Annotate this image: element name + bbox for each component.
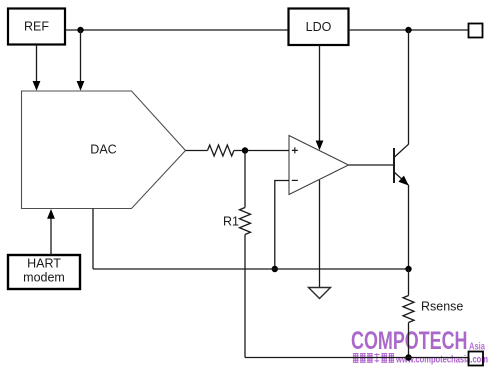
svg-text:Rsense: Rsense	[421, 300, 463, 314]
LDO block	[289, 9, 349, 46]
wire bottom rail	[245, 357, 469, 359]
svg-text:LDO: LDO	[306, 20, 332, 34]
DAC converter	[22, 91, 186, 209]
resistor Rsense	[403, 296, 463, 323]
node junction REF output	[77, 27, 83, 33]
wire arrow LDO to op-amp supply	[316, 45, 324, 150]
wire op-amp to ground	[319, 180, 321, 288]
wire op-amp minus input	[275, 181, 289, 270]
REF block	[8, 9, 65, 45]
svg-text:R1: R1	[223, 215, 239, 229]
op-amp U1	[289, 136, 349, 195]
wire arrow REF bottom to DAC	[33, 45, 41, 91]
svg-text:HART: HART	[27, 257, 61, 271]
node junction emitter / mid rail	[405, 266, 411, 272]
node junction plus input / R1	[242, 147, 248, 153]
output terminal top square	[469, 24, 483, 38]
resistor series (zigzag)	[208, 145, 234, 156]
watermark url	[395, 355, 488, 366]
node junction minus input / mid rail	[272, 266, 278, 272]
wire REF to LDO	[65, 29, 289, 31]
wire arrow HART modem to DAC	[47, 209, 55, 255]
output terminal bottom square	[469, 352, 484, 366]
wire collector to LDO junction	[408, 30, 410, 145]
watermark chinese tagline	[353, 353, 394, 362]
wire mid rail	[93, 268, 409, 270]
svg-text:DAC: DAC	[90, 143, 116, 157]
wire emitter down	[408, 185, 410, 269]
wire Rsense bottom	[408, 323, 410, 358]
node junction LDO output	[405, 27, 411, 33]
wire DAC bottom output	[92, 209, 94, 270]
resistor R1	[223, 208, 250, 235]
svg-text:modem: modem	[23, 271, 65, 285]
svg-text:REF: REF	[24, 20, 49, 34]
HART modem block	[8, 255, 80, 289]
ground	[309, 288, 331, 299]
wire Rsense top	[408, 269, 410, 296]
wire R1 bottom to bottom rail	[244, 235, 246, 358]
svg-text:Asia: Asia	[469, 340, 485, 352]
wire arrow junction to DAC	[77, 30, 85, 91]
watermark COMPOTECH logo	[351, 327, 468, 355]
wire LDO to output terminal	[349, 29, 469, 31]
transistor Q1	[394, 144, 409, 185]
wire DAC output to resistor	[186, 150, 208, 152]
svg-text:COMPOTECH: COMPOTECH	[351, 327, 468, 355]
wire R1 top	[244, 151, 246, 208]
wire op-amp output to transistor base	[349, 164, 395, 166]
node junction bottom rail	[405, 354, 411, 360]
wire resistor to op-amp plus input	[234, 150, 289, 152]
watermark Asia	[469, 340, 485, 352]
